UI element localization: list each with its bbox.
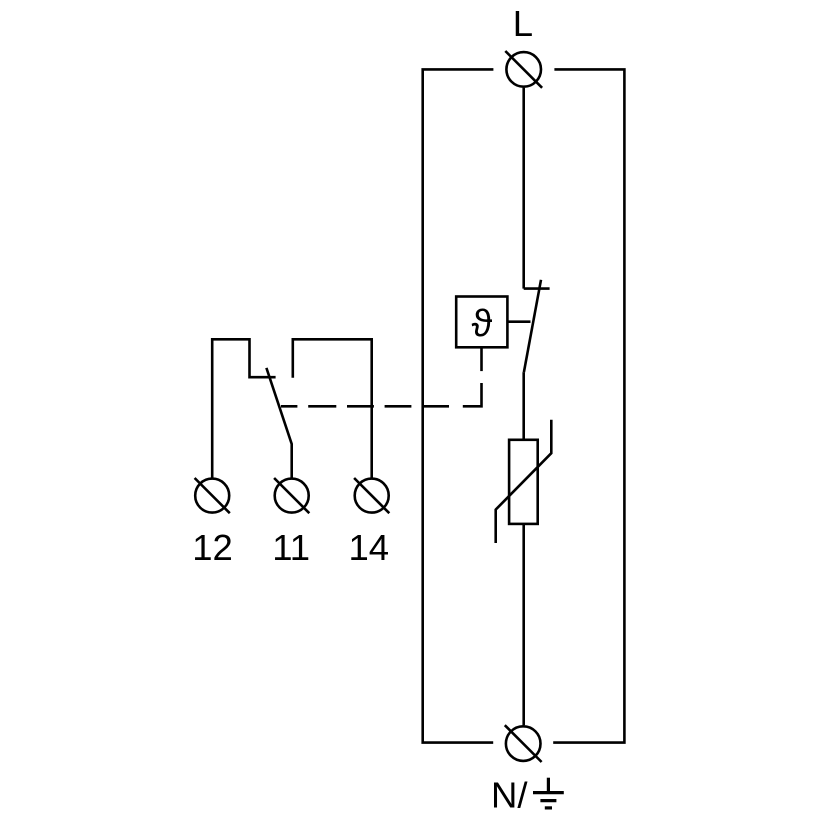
wire: theta box to switch blade xyxy=(507,320,530,323)
wire: disconnector to varistor xyxy=(522,372,525,440)
thermal sensor box xyxy=(456,297,507,348)
svg-text:12: 12 xyxy=(192,527,233,568)
device outline rectangle xyxy=(423,69,625,742)
earth symbol xyxy=(533,778,564,808)
svg-text:L: L xyxy=(513,3,533,44)
varistor diagonal symbol xyxy=(496,420,552,543)
thermal disconnector switch contact bar xyxy=(524,287,550,290)
dashed control link horizontal xyxy=(281,405,449,408)
dashed control link vertical xyxy=(463,348,482,406)
terminal 14 xyxy=(354,478,389,513)
wire: varistor to terminal N xyxy=(522,524,525,725)
svg-text:ϑ: ϑ xyxy=(472,303,493,345)
wire: fixed contact 12 (NC) xyxy=(212,339,275,477)
wire: fixed contact 14 (NO) xyxy=(293,339,372,477)
terminal 12 xyxy=(195,478,230,513)
terminal N/PE (bottom) xyxy=(505,725,542,762)
svg-text:14: 14 xyxy=(349,527,390,568)
wire: terminal L down to disconnector xyxy=(522,88,525,289)
terminal L (top) xyxy=(505,51,542,88)
terminal 11 xyxy=(274,478,309,513)
relay changeover blade (common 11) xyxy=(266,368,291,478)
thermal disconnector switch blade xyxy=(524,280,541,372)
svg-text:N/: N/ xyxy=(491,774,528,815)
varistor body xyxy=(509,440,538,524)
svg-text:11: 11 xyxy=(272,527,310,568)
